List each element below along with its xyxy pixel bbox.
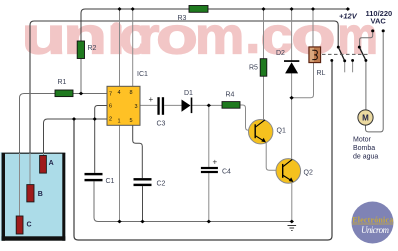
svg-text:1: 1 <box>118 119 121 125</box>
svg-text:2: 2 <box>109 117 112 123</box>
svg-text:R1: R1 <box>58 79 67 86</box>
svg-text:Q1: Q1 <box>277 128 286 135</box>
svg-text:R4: R4 <box>226 92 235 99</box>
svg-text:C: C <box>27 222 32 229</box>
svg-text:8: 8 <box>130 90 133 96</box>
svg-text:D2: D2 <box>276 50 285 57</box>
svg-text:6: 6 <box>109 104 112 110</box>
svg-text:4: 4 <box>118 90 121 96</box>
svg-text:Unicrom: Unicrom <box>361 225 390 235</box>
svg-text:C3: C3 <box>157 121 166 128</box>
svg-text:R2: R2 <box>88 45 97 52</box>
svg-text:VAC: VAC <box>371 17 387 26</box>
svg-text:+: + <box>213 158 218 167</box>
svg-text:u: u <box>21 7 66 65</box>
svg-text:Electrónica: Electrónica <box>352 216 393 225</box>
svg-text:m: m <box>195 7 244 65</box>
svg-text:RL: RL <box>317 70 326 77</box>
svg-text:de agua: de agua <box>353 154 378 161</box>
svg-text:IC1: IC1 <box>137 71 148 78</box>
svg-text:n: n <box>63 7 107 65</box>
svg-text:M: M <box>362 114 369 123</box>
svg-text:Bomba: Bomba <box>353 145 375 152</box>
svg-text:B: B <box>38 191 43 198</box>
svg-text:+: + <box>149 95 154 104</box>
svg-text:A: A <box>49 160 54 167</box>
svg-text:C2: C2 <box>157 181 166 188</box>
svg-text:R5: R5 <box>249 65 258 72</box>
svg-text:D1: D1 <box>184 90 193 97</box>
svg-text:5: 5 <box>130 118 133 124</box>
svg-text:3: 3 <box>135 104 138 110</box>
svg-text:+12V: +12V <box>339 12 358 21</box>
svg-text:Motor: Motor <box>353 137 372 144</box>
svg-text:R3: R3 <box>178 15 187 22</box>
svg-text:C4: C4 <box>222 169 231 176</box>
svg-text:Q2: Q2 <box>304 170 313 177</box>
svg-text:C1: C1 <box>106 178 115 185</box>
svg-text:7: 7 <box>109 92 112 98</box>
